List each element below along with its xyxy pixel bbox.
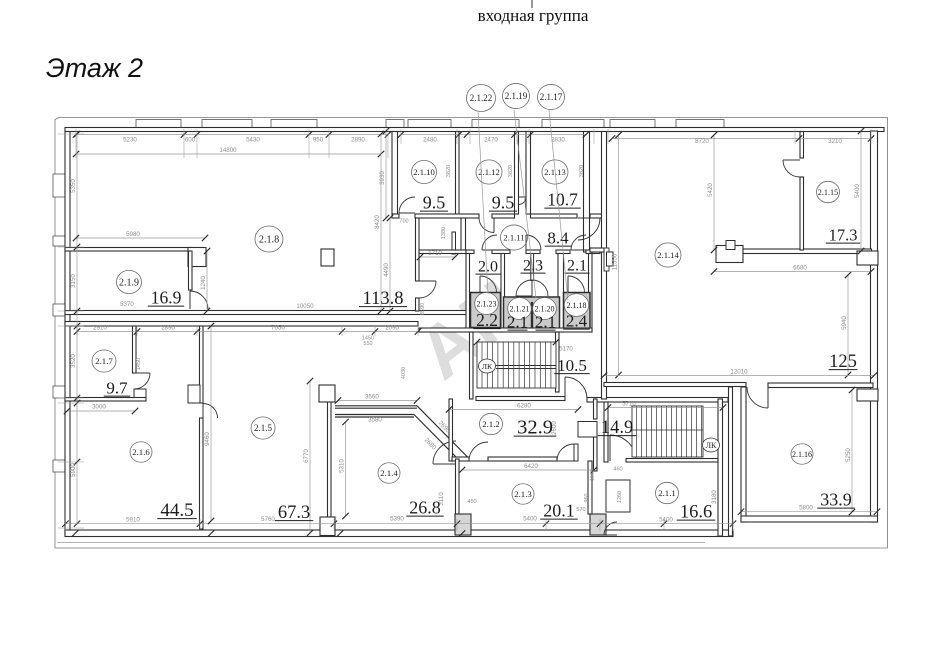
svg-text:2.1.3: 2.1.3 <box>514 489 532 499</box>
svg-text:1260: 1260 <box>617 491 623 503</box>
door room 2.1.16 <box>747 387 768 408</box>
room circle 2.1.9 <box>117 270 142 293</box>
dim 3930 <box>385 131 387 218</box>
door corridor <box>557 444 574 461</box>
svg-text:2.1.19: 2.1.19 <box>505 91 528 101</box>
extension lines left dim column <box>58 133 84 135</box>
door room 2.1.4 <box>433 441 456 464</box>
svg-text:1710: 1710 <box>428 250 442 257</box>
svg-text:950: 950 <box>313 137 324 144</box>
svg-text:2.1.9: 2.1.9 <box>119 278 139 289</box>
watermark <box>402 264 537 395</box>
svg-text:1060: 1060 <box>590 469 596 481</box>
svg-text:5170: 5170 <box>559 346 573 353</box>
wall top of stair B hall <box>587 398 728 403</box>
svg-text:9460: 9460 <box>204 432 211 446</box>
pilaster in 2.1.14 <box>716 246 743 263</box>
room circle 2.1.23 <box>475 293 499 315</box>
stair B ЛК circle <box>703 438 720 452</box>
svg-text:3580: 3580 <box>368 417 382 424</box>
door WC 2.1 left <box>516 280 532 296</box>
wall below stair A <box>476 397 565 401</box>
door stair B hall <box>610 435 636 461</box>
wall top of cells row left <box>419 250 466 254</box>
svg-text:5420: 5420 <box>707 183 714 197</box>
svg-text:2.0: 2.0 <box>478 259 498 276</box>
wall right of 2.1.9 <box>189 251 193 290</box>
svg-text:5400: 5400 <box>854 184 861 198</box>
dim 5420 in 2.1.14 <box>713 135 715 250</box>
room circle 2.1.5 <box>251 417 275 439</box>
svg-text:2.1.15: 2.1.15 <box>818 188 838 197</box>
room circle 2.1.20 <box>533 298 557 320</box>
wall 2.1.6|2.1.5 lower <box>200 418 204 529</box>
dim 5310 <box>345 422 347 516</box>
bottom dim row <box>66 523 734 525</box>
svg-text:5900: 5900 <box>70 463 77 477</box>
svg-text:5760: 5760 <box>261 516 275 523</box>
wall between 2.1.7 and 2.1.6 <box>133 326 137 373</box>
room circle 2.1.18 <box>564 294 588 317</box>
svg-text:2.1.11: 2.1.11 <box>503 233 524 243</box>
wall top of 2.1.4 lower line <box>335 414 414 416</box>
svg-text:3210: 3210 <box>828 138 842 145</box>
wall closet|corridor 2.1.11 <box>461 218 466 250</box>
svg-text:5400: 5400 <box>659 517 673 524</box>
top parapet bump <box>472 120 519 129</box>
svg-text:2.1.10: 2.1.10 <box>413 167 434 177</box>
wall left of 2.1.15 upper <box>800 132 804 159</box>
svg-text:3930: 3930 <box>379 171 386 185</box>
dim 12010 <box>604 375 874 377</box>
svg-text:2.1.6: 2.1.6 <box>132 447 150 457</box>
inner thin bottom line <box>57 542 705 544</box>
dim 6280 <box>449 409 578 411</box>
wall bottom of 2.1.7 <box>65 398 146 402</box>
corridor 2.1.11 top wall segment <box>492 214 515 218</box>
top parapet bump <box>386 120 404 129</box>
wall right of stair A <box>556 332 560 392</box>
left exterior wall <box>65 132 70 536</box>
svg-text:600: 600 <box>185 137 196 144</box>
wall left of 2.1.15 lower <box>800 177 804 250</box>
top parapet bump <box>271 120 317 129</box>
door room 2.1.9 <box>190 291 208 309</box>
bottom exterior wall <box>65 530 733 537</box>
WC room 2.2 box <box>471 293 501 328</box>
top dim row left <box>76 134 388 136</box>
svg-text:ЛК: ЛК <box>706 441 717 450</box>
door cell 2.0 <box>482 235 497 250</box>
dim 5400 room 2.1.15 <box>860 131 862 251</box>
outer boundary line <box>55 118 888 549</box>
svg-text:9.5: 9.5 <box>492 193 515 213</box>
wall top of cells row right <box>592 250 600 254</box>
right exterior wall <box>871 131 878 522</box>
dim row under corridor <box>77 331 418 333</box>
svg-text:2830: 2830 <box>551 137 565 144</box>
top parapet bump <box>542 120 604 129</box>
svg-text:входная группа: входная группа <box>478 6 589 25</box>
wall top of 2.1.4 upper line <box>335 405 417 407</box>
room circle 2.1.6 <box>130 442 152 462</box>
svg-text:33.9: 33.9 <box>820 490 852 510</box>
wall east of cells block / west of 2.1.14 <box>602 132 607 400</box>
dim 1710 <box>420 256 455 258</box>
svg-text:700: 700 <box>399 219 408 225</box>
niche at wall 2.1.6|2.1.5 <box>188 385 200 403</box>
svg-text:6280: 6280 <box>517 402 531 409</box>
left pilaster bump <box>53 460 65 472</box>
dim 5800 room 2.1.16 <box>741 511 877 513</box>
room circle 2.1.2 <box>480 413 503 434</box>
room circle 2.1.16 <box>791 444 813 464</box>
corridor wall south of 2.1.8/2.1.9 <box>65 311 470 315</box>
door cell 2.1 <box>571 235 586 250</box>
svg-text:2.1.5: 2.1.5 <box>254 423 273 433</box>
top parapet bump <box>136 120 181 129</box>
svg-text:17.3: 17.3 <box>829 226 858 245</box>
door room 2.1.2 <box>469 442 488 461</box>
wall below WC row <box>419 328 592 332</box>
svg-text:450: 450 <box>467 499 476 505</box>
entrance door swing <box>519 197 527 205</box>
door WC 2.2 <box>480 276 497 293</box>
wall left of stair B hall lower <box>594 437 598 471</box>
stair A ЛК circle <box>479 359 496 373</box>
staircase B (14.9) <box>632 406 703 457</box>
door WC 2.4 <box>568 276 585 293</box>
svg-text:5350: 5350 <box>70 179 77 193</box>
corridor 2.1.11 top wall segment <box>415 214 479 218</box>
svg-text:3000: 3000 <box>92 404 106 411</box>
wall left of stair B hall upper <box>594 399 598 419</box>
svg-text:570: 570 <box>576 507 585 513</box>
door bottom 2.1.1 <box>604 522 617 535</box>
dim 5980 <box>76 237 205 239</box>
dim 6770 <box>309 381 311 533</box>
leader circle 2.1.17 <box>549 110 568 300</box>
svg-text:4490: 4490 <box>383 263 390 277</box>
door post cell 2.3 <box>531 254 534 281</box>
svg-text:2.1.2: 2.1.2 <box>482 419 500 429</box>
svg-text:8.4: 8.4 <box>547 229 569 248</box>
svg-text:2.1.23: 2.1.23 <box>477 299 497 308</box>
shaft box 2.1.1 <box>606 480 630 512</box>
top parapet bump <box>202 120 252 129</box>
svg-text:2480: 2480 <box>423 137 437 144</box>
wall bottom of room 125 <box>604 383 746 387</box>
svg-text:5800: 5800 <box>799 505 813 512</box>
tambour wall right (entrance) <box>526 132 531 215</box>
dim 3000 line <box>67 410 135 412</box>
wall top of cells segment <box>492 250 510 254</box>
left pilaster bump <box>53 386 65 398</box>
svg-text:5980: 5980 <box>126 231 140 238</box>
wall top of cells segment <box>586 250 592 254</box>
svg-text:2890: 2890 <box>351 137 365 144</box>
wall top of 2.1.7/2.1.6/2.1.5 <box>65 322 418 327</box>
svg-text:14.9: 14.9 <box>601 418 633 438</box>
svg-text:2.1: 2.1 <box>567 258 587 275</box>
corridor 2.1.11 top wall segment <box>392 214 399 218</box>
room circle 2.1.10 <box>412 160 437 183</box>
svg-text:1240: 1240 <box>200 276 207 290</box>
leader circle 2.1.19 <box>514 110 536 298</box>
corridor south wall segment <box>452 457 469 461</box>
door room 2.1.15 <box>783 160 800 177</box>
wall stub west in 2.1.14 <box>590 248 604 252</box>
wall left shaft 2.1.16 <box>729 387 733 536</box>
diagonal wall of 2.1.4 <box>414 406 468 460</box>
svg-text:5940: 5940 <box>841 316 848 330</box>
svg-text:16.6: 16.6 <box>680 503 712 523</box>
wall cells 1|2 <box>501 254 505 333</box>
svg-text:10050: 10050 <box>296 303 314 310</box>
dim 6420 <box>462 469 594 471</box>
svg-text:44.5: 44.5 <box>160 500 193 521</box>
dim 4490 <box>389 218 391 311</box>
svg-text:2.1.7: 2.1.7 <box>95 356 113 366</box>
svg-text:2470: 2470 <box>484 137 498 144</box>
dim 5940 <box>847 275 849 375</box>
svg-text:3560: 3560 <box>365 393 379 400</box>
room circle 2.1.21 <box>508 298 532 320</box>
tambour wall left (entrance) <box>515 132 519 215</box>
door room 2.1.13 <box>578 218 600 240</box>
svg-text:9.5: 9.5 <box>423 193 446 213</box>
wall right of cells block <box>589 254 593 333</box>
column in room 2.1.8 <box>321 249 334 266</box>
svg-text:1450: 1450 <box>136 358 142 370</box>
svg-text:550: 550 <box>363 341 372 347</box>
door WC 2.1 right <box>532 280 548 296</box>
pilaster jog east of cells wall <box>607 252 614 266</box>
extension lines bottom dim row <box>65 519 67 531</box>
divider WC 2.1|2.1 <box>531 302 533 331</box>
dim 8420 <box>380 134 382 311</box>
svg-text:Этаж 2: Этаж 2 <box>46 53 143 83</box>
svg-text:8420: 8420 <box>374 215 381 229</box>
svg-text:5250: 5250 <box>845 448 852 462</box>
leader входная группа <box>531 0 533 8</box>
svg-text:5910: 5910 <box>126 517 140 524</box>
wall right of stair B / 2.1.1 <box>718 399 723 536</box>
top dim row middle <box>401 134 586 136</box>
wall top of cells segment <box>466 250 474 254</box>
room circle 2.1.7 <box>92 350 116 372</box>
WC room 2.4 box <box>564 293 591 330</box>
svg-text:6770: 6770 <box>303 449 310 463</box>
pilaster right in 2.1.14 <box>857 251 878 265</box>
dim 11550 <box>618 135 620 375</box>
svg-text:14800: 14800 <box>219 147 237 154</box>
pillar top of wall 2.1.5|2.1.4 <box>319 385 335 402</box>
room circle 2.1.14 <box>655 243 681 267</box>
door room 2.1.10 <box>399 197 415 213</box>
wall left of 2.1.16 <box>741 387 746 522</box>
svg-text:3820: 3820 <box>579 165 585 177</box>
svg-text:ЛК: ЛК <box>482 362 493 371</box>
door room 2.1.7 <box>134 373 150 389</box>
left pilaster bump <box>53 304 65 316</box>
dim 6680 <box>714 271 871 273</box>
svg-text:26.8: 26.8 <box>409 498 441 518</box>
wall bottom of 2.1.16 <box>741 516 878 522</box>
room circle 2.1.13 <box>542 160 568 184</box>
dim 5710 <box>608 407 723 409</box>
svg-text:3820: 3820 <box>508 165 514 177</box>
svg-text:2.1.4: 2.1.4 <box>380 468 398 478</box>
wall left of cells block <box>466 254 470 333</box>
svg-text:3520: 3520 <box>70 354 77 368</box>
wall top of room 2.1.9 <box>65 248 192 252</box>
svg-text:2.2: 2.2 <box>476 310 498 330</box>
pillar bottom wall 2.1.4|2.1.3 <box>455 514 471 535</box>
svg-text:2.1.18: 2.1.18 <box>567 301 587 310</box>
corridor 2.1.11 top wall segment <box>531 214 578 218</box>
left vertical dims <box>76 134 78 524</box>
svg-text:12010: 12010 <box>730 368 748 375</box>
top dim row right <box>612 138 871 140</box>
svg-text:5370: 5370 <box>120 301 134 308</box>
pilaster bottom right of 125 <box>857 389 878 401</box>
svg-text:2910: 2910 <box>93 324 107 331</box>
svg-text:10.5: 10.5 <box>557 356 587 375</box>
room circle 2.1.4 <box>378 463 400 483</box>
wall right of 2.1.13 <box>584 132 590 253</box>
niche in wall of stair B hall <box>578 422 597 438</box>
dim 14800 <box>76 153 381 155</box>
wall left of stair B <box>604 402 608 462</box>
wall left of 2.1.2 <box>449 399 453 461</box>
leader circle 2.1.22 <box>478 112 488 294</box>
pillar bottom wall 2.1.3|2.1.1 <box>590 514 606 535</box>
top parapet bump <box>676 120 724 129</box>
svg-text:5230: 5230 <box>123 137 137 144</box>
svg-text:3150: 3150 <box>70 274 77 288</box>
wall stub in corridor 2.1.11 <box>452 232 456 254</box>
svg-text:9.7: 9.7 <box>106 379 128 398</box>
svg-text:8720: 8720 <box>695 138 709 145</box>
top parapet bump <box>610 120 655 129</box>
top exterior wall <box>65 128 884 132</box>
svg-text:6420: 6420 <box>524 463 538 470</box>
svg-text:16.9: 16.9 <box>151 288 182 308</box>
svg-text:32.9: 32.9 <box>517 417 553 439</box>
room circle 2.1.12 <box>476 160 502 184</box>
svg-text:2.4: 2.4 <box>566 312 588 331</box>
door cell 2.3 <box>526 235 541 250</box>
wall 2.1.6|2.1.5 upper <box>200 326 204 403</box>
svg-text:5310: 5310 <box>339 459 346 473</box>
corridor 2.1.11 top wall segment <box>590 214 602 218</box>
pilaster notch in 2.1.14 <box>726 241 735 250</box>
svg-text:460: 460 <box>613 467 622 473</box>
svg-text:2.1.16: 2.1.16 <box>792 450 812 459</box>
svg-text:2090: 2090 <box>385 324 399 331</box>
wall below stair B <box>626 459 718 463</box>
dim 9460 <box>210 326 212 521</box>
svg-text:11550: 11550 <box>612 253 619 270</box>
WC rooms 2.1/2.1 box <box>504 297 560 331</box>
svg-text:5400: 5400 <box>523 516 537 523</box>
wall left of stair A <box>470 332 474 399</box>
svg-text:6680: 6680 <box>793 264 807 271</box>
staircase A (10.5) <box>477 342 556 388</box>
door 2.1.8 to corridor <box>419 281 436 298</box>
svg-text:5710: 5710 <box>622 400 636 407</box>
svg-text:2.1.1: 2.1.1 <box>658 488 676 498</box>
svg-text:113.8: 113.8 <box>363 289 404 309</box>
svg-text:20.1: 20.1 <box>543 501 575 521</box>
wall bottom of 2.1.15 <box>743 249 872 254</box>
svg-text:2.1.17: 2.1.17 <box>540 92 563 102</box>
top parapet bump <box>408 120 451 129</box>
room circle 2.1.11 <box>501 225 528 250</box>
dim 5250 room 2.1.16 <box>851 390 853 512</box>
dim 1240 <box>206 251 208 311</box>
wall 2.1.3|2.1.1 <box>588 461 592 514</box>
svg-text:5430: 5430 <box>246 137 260 144</box>
svg-text:4030: 4030 <box>401 367 407 379</box>
svg-text:2.1: 2.1 <box>535 313 556 332</box>
svg-text:2.1.22: 2.1.22 <box>470 93 493 103</box>
svg-text:2.1.8: 2.1.8 <box>259 235 279 246</box>
extension lines top dim rows <box>75 129 77 158</box>
wall top of 2.1.16 <box>768 383 873 388</box>
svg-text:67.3: 67.3 <box>278 503 310 523</box>
wall between 2.1.5 and 2.1.4 <box>328 402 332 517</box>
wall left of 2.1.10 <box>392 132 398 215</box>
svg-text:125: 125 <box>829 352 857 372</box>
svg-text:8590: 8590 <box>420 303 426 315</box>
room circle 2.1.8 <box>255 226 283 252</box>
pilaster jog wall 2.1.14 <box>604 248 609 271</box>
dim 3560 <box>338 400 417 402</box>
extension lines row 2910 <box>76 326 78 336</box>
wall 2.1.4|2.1.3 <box>456 459 460 514</box>
svg-text:5390: 5390 <box>390 516 404 523</box>
door room 2.1.12 <box>479 218 494 233</box>
pillar bottom of wall 2.1.5|2.1.4 <box>320 517 335 536</box>
entrance door in tambour <box>519 196 527 198</box>
wall west of corridor 2.1.11 upper <box>416 218 420 281</box>
pillar corner 2.1.9 <box>188 248 206 267</box>
svg-text:2890: 2890 <box>161 324 175 331</box>
room circle 2.1.15 <box>817 181 840 202</box>
wall jog below door 2.1.7 <box>134 389 146 398</box>
wall 2.1.10|2.1.12 <box>456 132 460 215</box>
svg-text:2.1: 2.1 <box>507 313 528 332</box>
wall west of corridor 2.1.11 lower <box>416 298 420 311</box>
wall top of cells segment <box>556 250 570 254</box>
svg-text:3820: 3820 <box>446 165 452 177</box>
left pilaster bump <box>53 236 65 246</box>
svg-text:10.7: 10.7 <box>547 190 578 210</box>
room circle 2.1.1 <box>656 482 679 503</box>
left pilaster bump <box>53 174 65 197</box>
door stair A <box>565 377 587 399</box>
wall stub corridor <box>574 444 578 461</box>
wall top of cells segment <box>526 250 540 254</box>
svg-text:7050: 7050 <box>271 324 285 331</box>
door room 2.1.5 <box>203 404 218 419</box>
room circle 2.1.3 <box>512 484 534 504</box>
svg-text:1380: 1380 <box>441 227 447 239</box>
svg-text:960: 960 <box>584 494 590 503</box>
wall cells 3|4 <box>558 254 564 333</box>
